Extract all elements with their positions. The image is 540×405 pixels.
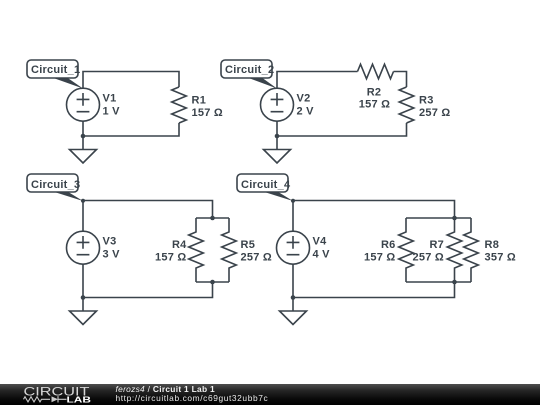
svg-text:257 Ω: 257 Ω [241, 252, 272, 264]
resistor R8 [464, 218, 479, 282]
ground (circuit 2) [264, 136, 291, 163]
wire: C4 parallel loop top [406, 217, 471, 219]
resistor R4 [189, 218, 204, 282]
wire: C2 top rail from V2 to R2 [277, 72, 358, 89]
svg-text:2 V: 2 V [297, 106, 315, 118]
net label Circuit_2 [221, 60, 277, 89]
svg-text:157 Ω: 157 Ω [192, 107, 223, 119]
node: C4 junction at V4 bottom [291, 295, 296, 300]
node: C3 top parallel junction [210, 216, 215, 221]
svg-text:Circuit_2: Circuit_2 [225, 64, 274, 76]
svg-text:R8: R8 [485, 239, 500, 251]
wire: C2 top rail from R2 to R3 [394, 72, 407, 88]
node: C3 junction at V3 bottom [81, 295, 86, 300]
resistor R1 [172, 87, 187, 123]
node: C4 top parallel junction [452, 216, 457, 221]
node: C3 bottom parallel junction [210, 280, 215, 285]
wire: C2 bottom rail from R3 to V2 [277, 121, 407, 136]
svg-text:1 V: 1 V [103, 106, 121, 118]
resistor R3 [399, 87, 414, 123]
footer bar [0, 384, 540, 405]
wire: C3 top rail from V3 to parallel node [83, 201, 213, 232]
svg-text:Circuit_1: Circuit_1 [31, 64, 80, 76]
node: C2 junction at V2 bottom [275, 134, 280, 139]
wire: C3 parallel loop top [196, 217, 229, 219]
node: C4 bottom parallel junction [452, 280, 457, 285]
wire: C3 bottom rail to V3 [83, 264, 213, 297]
resistor R6 [399, 218, 414, 282]
svg-text:157 Ω: 157 Ω [155, 252, 186, 264]
net label Circuit_4 [237, 174, 295, 203]
voltage source V2 [261, 88, 294, 121]
svg-text:257 Ω: 257 Ω [413, 252, 444, 264]
resistor R5 [222, 218, 237, 282]
svg-text:R5: R5 [241, 239, 256, 251]
svg-text:V1: V1 [103, 93, 117, 105]
wire: C4 top rail from V4 to parallel node [293, 201, 455, 232]
net label Circuit_1 [27, 60, 83, 89]
svg-text:R7: R7 [429, 239, 444, 251]
svg-text:V3: V3 [103, 236, 117, 248]
resistor R7 [447, 218, 462, 282]
svg-text:R6: R6 [381, 239, 396, 251]
svg-text:4 V: 4 V [313, 249, 331, 261]
resistor R2 [358, 64, 394, 79]
svg-text:257 Ω: 257 Ω [419, 107, 450, 119]
svg-text:157 Ω: 157 Ω [364, 252, 395, 264]
voltage source V4 [277, 231, 310, 264]
CircuitLab logo schematic: resistor zigzag [24, 397, 51, 402]
svg-text:Circuit_3: Circuit_3 [31, 179, 80, 191]
ground (circuit 4) [280, 298, 307, 325]
CircuitLab logo schematic: diode [52, 396, 59, 402]
wire: C1 bottom rail from R1 to V1 [83, 121, 179, 136]
wire: C3 parallel loop bottom [196, 281, 229, 283]
svg-text:R1: R1 [192, 95, 207, 107]
svg-text:157 Ω: 157 Ω [359, 99, 390, 111]
svg-text:3 V: 3 V [103, 249, 121, 261]
svg-text:V4: V4 [313, 236, 328, 248]
svg-text:R3: R3 [419, 95, 434, 107]
net label Circuit_3 [27, 174, 85, 203]
ground (circuit 3) [70, 298, 97, 325]
ground (circuit 1) [70, 136, 97, 163]
voltage source V3 [67, 231, 100, 264]
voltage source V1 [67, 88, 100, 121]
svg-text:V2: V2 [297, 93, 311, 105]
wire: C1 top rail from V1 to R1 [83, 72, 179, 89]
svg-text:357 Ω: 357 Ω [485, 252, 516, 264]
svg-text:LAB: LAB [67, 395, 92, 405]
svg-text:Circuit_4: Circuit_4 [241, 179, 291, 191]
wire: C4 bottom rail to V4 [293, 264, 455, 297]
node: C1 junction at V1 bottom [81, 134, 86, 139]
svg-text:http://circuitlab.com/c69gut32: http://circuitlab.com/c69gut32ubb7c [116, 393, 269, 403]
svg-text:R4: R4 [172, 239, 187, 251]
wire: C4 parallel loop bottom [406, 281, 471, 283]
svg-text:R2: R2 [367, 87, 382, 99]
